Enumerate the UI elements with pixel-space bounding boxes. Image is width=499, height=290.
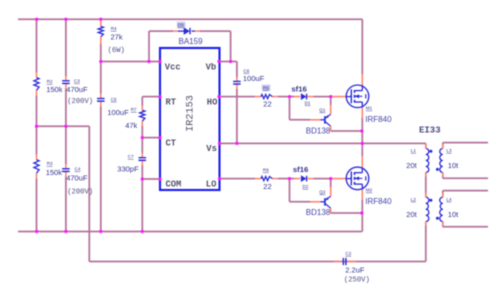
wire bottom 0V bus <box>18 231 362 233</box>
svg-text:HO: HO <box>207 97 218 107</box>
wire half-bridge mid segment <box>361 131 363 143</box>
capacitor C6 <box>233 80 241 82</box>
capacitor C5 pins <box>100 94 102 99</box>
resistor R7 <box>140 110 145 121</box>
node L1 polarity dot <box>429 150 432 153</box>
resistor R3 <box>34 160 39 173</box>
resistor R2 <box>34 78 39 91</box>
diode D2 pins <box>294 178 300 180</box>
svg-text:R2: R2 <box>47 79 53 84</box>
wire HO node to D1 <box>290 96 295 98</box>
node L4 polarity dot <box>436 217 439 220</box>
svg-text:(6W): (6W) <box>108 47 125 55</box>
wire M1 drain pin <box>361 74 363 85</box>
svg-text:EI33: EI33 <box>419 126 441 136</box>
wire COM pin <box>142 178 160 180</box>
wire M1 gate pin <box>332 96 346 98</box>
capacitor C1 timing 330pF <box>139 157 147 159</box>
svg-text:M1: M1 <box>366 106 373 111</box>
node HO node at R5/D1/Q1 <box>288 95 291 98</box>
resistor R4 pins <box>100 19 102 26</box>
capacitor C3 <box>62 80 70 82</box>
svg-text:R4: R4 <box>111 26 117 31</box>
wire CT node to CT cap <box>141 138 143 153</box>
svg-text:D5: D5 <box>178 23 184 28</box>
svg-text:L3: L3 <box>446 148 452 153</box>
wire L2 pin stubs orange <box>425 193 427 197</box>
svg-text:L2: L2 <box>411 197 417 202</box>
svg-text:150k: 150k <box>46 85 63 94</box>
wire LO node to D2 <box>290 178 295 180</box>
inductor L1 primary <box>426 149 429 173</box>
capacitor C1 pins <box>141 153 143 158</box>
node RT pin junction <box>158 95 161 98</box>
node M2 source junction <box>360 211 363 214</box>
wire R4 to Vcc node <box>100 44 102 62</box>
wire L1 to L2 <box>425 173 427 198</box>
wire Vcc node to chip Vcc pin <box>101 61 160 63</box>
svg-text:C4: C4 <box>75 166 81 171</box>
svg-text:(250V): (250V) <box>344 276 370 284</box>
wire C4 column top <box>65 126 67 164</box>
wire M2 source to node <box>361 200 363 213</box>
node top bus junction at R2 <box>35 18 38 21</box>
transistor Q1 base pin <box>310 119 321 121</box>
svg-text:IR2153: IR2153 <box>186 95 197 132</box>
svg-text:L4: L4 <box>446 197 452 202</box>
wire Q1 collector to M1 source node <box>331 130 362 132</box>
svg-text:(200V): (200V) <box>67 98 93 106</box>
svg-text:C7: C7 <box>128 154 134 159</box>
wire top +DC bus <box>18 18 362 20</box>
svg-text:BA159: BA159 <box>179 37 204 46</box>
svg-text:C3: C3 <box>74 78 80 83</box>
wire capacitor-divider mid rail <box>37 125 90 127</box>
wire LO node drop to Q2 base <box>289 179 291 202</box>
wire LO pin to R6 <box>220 178 256 180</box>
svg-text:C2: C2 <box>345 251 351 256</box>
wire L3 pin stubs orange <box>442 144 444 148</box>
svg-text:Q1: Q1 <box>319 107 326 112</box>
svg-text:100uF: 100uF <box>243 74 265 83</box>
wire L3 top stub <box>442 143 444 149</box>
wire COM drop to bottom bus <box>141 179 143 232</box>
wire C5 to bottom bus <box>100 107 102 232</box>
node M2 gate node <box>329 177 332 180</box>
svg-text:IRF840: IRF840 <box>365 197 392 206</box>
transistor Q1 collector pin down <box>330 126 332 131</box>
wire L2 bottom to riser <box>425 222 427 232</box>
svg-text:47k: 47k <box>125 121 137 130</box>
capacitor C2 pins <box>334 261 342 263</box>
diode D5 <box>184 28 189 34</box>
wire C3 column top <box>65 19 67 76</box>
wire M2 source pin <box>361 190 363 200</box>
node M1 gate node <box>329 95 332 98</box>
svg-text:20t: 20t <box>406 161 417 170</box>
wire Vcc node down to C5 <box>100 62 102 94</box>
wire R3 column top <box>36 126 38 154</box>
wire M1 source pin <box>361 108 363 118</box>
svg-text:2.2uF: 2.2uF <box>345 265 365 274</box>
wire L4 bottom stub <box>442 222 444 227</box>
capacitor C2 2.2uF <box>342 258 344 265</box>
node bottom bus junction at C4 <box>64 230 67 233</box>
transistor Q2 BD138 <box>321 201 325 203</box>
wire R2 to mid rail <box>36 96 38 127</box>
wire M2 source to bottom bus <box>361 213 363 232</box>
svg-text:Q2: Q2 <box>319 189 326 194</box>
node mid rail junction at R2/R3 <box>35 125 38 128</box>
svg-text:100uF: 100uF <box>107 108 129 117</box>
svg-text:C5: C5 <box>111 97 117 102</box>
wire RT corner down to R7 <box>141 97 143 106</box>
node COM junction at C1 <box>141 177 144 180</box>
diode D1 sf16 <box>301 94 306 100</box>
capacitor C3 pins <box>65 76 67 80</box>
svg-text:sf16: sf16 <box>291 85 306 94</box>
wire R7 to CT node <box>141 126 143 138</box>
node U1 CT pin edge <box>158 136 161 139</box>
svg-text:R5: R5 <box>263 85 269 90</box>
svg-text:Vcc: Vcc <box>165 62 181 72</box>
wire RT pin <box>142 96 160 98</box>
transistor M2 IRF840 <box>346 167 369 190</box>
transistor Q2 collector pin down <box>330 208 332 213</box>
wire R5 to node <box>278 96 290 98</box>
wire Vs riser to L1 <box>425 143 427 148</box>
svg-text:BD138: BD138 <box>306 208 331 217</box>
wire L4 top stub <box>442 191 444 198</box>
wire HO pin to R5 <box>220 96 256 98</box>
wire HO node drop to Q1 base <box>289 97 291 120</box>
wire D5 cathode drop to Vb <box>230 31 232 61</box>
capacitor C5 <box>97 98 105 100</box>
diode D5 leads <box>178 30 184 32</box>
node COM pin junction <box>158 177 161 180</box>
svg-text:M2: M2 <box>366 188 373 193</box>
svg-text:COM: COM <box>166 180 182 190</box>
node bottom bus junction at C5 <box>99 230 102 233</box>
node U1 Vb pin edge <box>217 60 220 63</box>
wire C4 to bottom bus <box>65 177 67 232</box>
svg-text:Vb: Vb <box>206 62 217 72</box>
node LO pin junction <box>218 177 221 180</box>
resistor R2 pins <box>36 73 38 78</box>
wire M1 source to node <box>361 118 363 131</box>
label D5 <box>177 22 186 28</box>
svg-text:22: 22 <box>263 100 271 109</box>
svg-text:470uF: 470uF <box>66 85 88 94</box>
node U1 Vcc pin edge <box>158 60 161 63</box>
svg-text:D2: D2 <box>302 184 308 189</box>
node C6 to Vs junction <box>235 142 238 145</box>
node bottom bus junction at COM <box>141 230 144 233</box>
wire D1 to gate node <box>313 96 331 98</box>
transistor Q2 base pin <box>310 201 321 203</box>
svg-text:LO: LO <box>206 180 217 190</box>
node M1 source junction <box>360 129 363 132</box>
wire R3 to bottom bus <box>36 179 38 232</box>
capacitor C6 pins <box>236 77 238 81</box>
node CT junction at R7 <box>141 136 144 139</box>
node mid rail junction at C3/C4 <box>64 125 67 128</box>
transistor Q1 emitter pin to gate node <box>330 105 332 114</box>
inductor L4 secondary <box>440 197 443 221</box>
svg-text:470uF: 470uF <box>66 173 88 182</box>
resistor R6 pins <box>255 178 261 180</box>
label R5 <box>262 85 271 91</box>
wire L4 pin stubs orange <box>442 193 444 197</box>
wire mid-rail drop to C7 line <box>88 126 90 261</box>
resistor R5 <box>261 95 272 99</box>
svg-text:D1: D1 <box>305 100 311 105</box>
inductor L3 secondary <box>440 149 443 173</box>
wire R2 column top <box>36 19 38 72</box>
wire D2 to gate node <box>313 178 331 180</box>
svg-text:sf16: sf16 <box>293 165 308 174</box>
svg-text:27k: 27k <box>111 33 123 42</box>
resistor R6 <box>261 177 272 181</box>
svg-text:CT: CT <box>166 138 177 148</box>
wire Vs pin line to transformer <box>220 142 426 144</box>
node L2 polarity dot <box>429 199 432 202</box>
node LO node at R6/D2/Q2 <box>288 177 291 180</box>
svg-text:C6: C6 <box>243 68 249 73</box>
wire top bus drop to M1 drain <box>361 19 363 74</box>
node Vcc junction at R4 <box>99 60 102 63</box>
resistor R5 pins <box>255 96 261 98</box>
resistor R4 <box>98 26 103 36</box>
wire M1 gate lead <box>346 96 351 98</box>
inductor L2 primary <box>426 197 429 221</box>
svg-text:(200V): (200V) <box>67 188 93 196</box>
svg-text:10t: 10t <box>448 161 459 170</box>
wire C7 to transformer riser <box>425 231 427 262</box>
wire C3 to mid rail <box>65 89 67 127</box>
node L3 polarity dot <box>436 168 439 171</box>
transistor Q2 emitter pin to gate node <box>330 187 332 196</box>
transistor M1 IRF840 <box>346 85 369 108</box>
svg-text:Vs: Vs <box>206 144 217 154</box>
wire D5 cathode segment <box>200 30 231 32</box>
wire D5 anode segment <box>149 30 173 32</box>
transistor Q1 BD138 <box>321 119 325 121</box>
node Vs to half-bridge junction <box>361 142 364 145</box>
diode D5 pins <box>173 30 178 32</box>
wire CT pin <box>142 137 160 139</box>
wire L3 bottom stub <box>442 173 444 179</box>
resistor R7 pins <box>141 106 143 111</box>
diode D1 pins <box>294 96 300 98</box>
node U1 HO pin edge <box>217 95 220 98</box>
wire R6 to node <box>278 178 290 180</box>
wire M2 drain pin <box>361 156 363 167</box>
svg-text:R7: R7 <box>131 107 137 112</box>
wire L1 pin stubs orange <box>425 144 427 148</box>
svg-text:RT: RT <box>166 97 177 107</box>
svg-text:330pF: 330pF <box>117 165 139 174</box>
svg-text:150k: 150k <box>46 168 63 177</box>
svg-text:20t: 20t <box>406 210 417 219</box>
diode D2 sf16 <box>301 176 306 182</box>
wire Q2 collector to M2 source node <box>331 212 362 214</box>
node Vb junction <box>229 60 232 63</box>
svg-text:IRF840: IRF840 <box>365 115 392 124</box>
node bottom bus junction at R3 <box>35 230 38 233</box>
svg-text:L1: L1 <box>411 148 417 153</box>
wire M2 gate lead <box>346 178 351 180</box>
wire D5 branch riser <box>148 31 150 61</box>
wire bootstrap C6 branch lower to Vs line <box>236 89 238 143</box>
resistor R3 pins <box>36 155 38 160</box>
wire CT cap to COM node <box>141 166 143 180</box>
wire Vb pin stub <box>220 61 237 63</box>
svg-text:R6: R6 <box>263 167 269 172</box>
svg-text:22: 22 <box>263 182 271 191</box>
node Vcc junction at D5 branch <box>147 60 150 63</box>
op-amp U1 IR2153 body <box>160 48 220 190</box>
wire M2 gate pin <box>332 178 346 180</box>
wire mid node to M2 drain <box>361 143 363 156</box>
svg-text:10t: 10t <box>448 210 459 219</box>
node top bus junction at R4 <box>99 18 102 21</box>
svg-text:R3: R3 <box>47 161 53 166</box>
wire C7 horizontal line <box>89 261 426 263</box>
capacitor C4 <box>62 168 70 170</box>
svg-text:BD138: BD138 <box>306 127 331 136</box>
capacitor C4 pins <box>65 164 67 168</box>
node top bus junction at C3 <box>64 18 67 21</box>
wire bootstrap C6 branch upper <box>236 62 238 78</box>
node Vs pin junction <box>218 142 221 145</box>
